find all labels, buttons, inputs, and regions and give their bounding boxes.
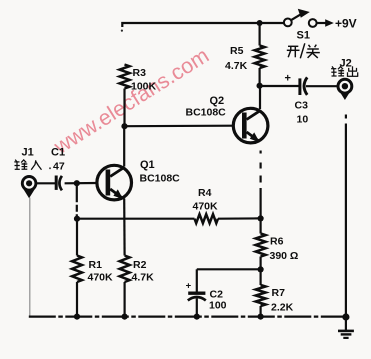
transistor Q1: [97, 165, 132, 200]
wire R7 bottom lead: [260, 306, 262, 317]
svg-text:100: 100: [209, 300, 227, 312]
node R5/C3/Q2 junction: [257, 83, 263, 89]
wire R5 top lead: [259, 23, 261, 46]
wire R6 top lead: [260, 218, 262, 233]
svg-text:Q2: Q2: [210, 95, 225, 107]
wire C1 to Q1 base: [65, 182, 97, 185]
svg-text:+: +: [186, 281, 192, 292]
wire C3 right: [306, 85, 338, 87]
svg-text:100K: 100K: [131, 81, 157, 93]
capacitor C3: [300, 77, 307, 95]
node R6/R7/C2 junction: [258, 266, 264, 272]
resistor R7: [256, 285, 266, 306]
svg-text:470K: 470K: [88, 272, 114, 284]
svg-text:S1: S1: [297, 30, 310, 42]
resistor R3: [120, 65, 130, 89]
wire R7 top lead: [260, 269, 262, 285]
ground: [338, 317, 354, 338]
resistor R1: [72, 256, 82, 283]
svg-text:10: 10: [297, 114, 309, 126]
wire J1 to C1: [36, 182, 55, 184]
wire J1 sleeve gray drop: [29, 198, 31, 317]
svg-text:R2: R2: [133, 259, 147, 271]
node rail/ground: [342, 313, 349, 320]
label J2 shuchu: [331, 66, 358, 76]
svg-text:4.7K: 4.7K: [225, 60, 248, 72]
svg-text:390 Ω: 390 Ω: [270, 250, 299, 262]
svg-text:C3: C3: [295, 100, 309, 112]
watermark www.elecfans.com: [49, 43, 213, 159]
wire Q2 collector from node: [259, 86, 261, 109]
wire Q1 collector: [123, 126, 125, 166]
wire R5 bottom lead: [259, 68, 261, 86]
node rail/R5 junction: [257, 20, 263, 26]
svg-text:470K: 470K: [193, 201, 219, 213]
connector J2: [337, 79, 352, 100]
connector J1: [22, 177, 36, 199]
node R4/R6/Q2-emitter junction: [258, 215, 264, 221]
svg-text:R4: R4: [198, 187, 212, 199]
wire Q2 emitter dashes: [260, 151, 262, 219]
svg-text:R1: R1: [89, 259, 103, 271]
resistor R6: [256, 234, 266, 257]
svg-text:www.elecfans.com: www.elecfans.com: [49, 43, 213, 159]
label J1 shuru: [14, 160, 41, 170]
wire R2 bottom lead: [123, 282, 125, 317]
svg-text:R5: R5: [230, 45, 244, 57]
svg-text:47: 47: [53, 161, 65, 173]
wire R3 bottom lead: [123, 89, 125, 127]
transistor Q2: [233, 108, 268, 143]
resistor R4: [195, 214, 219, 223]
wire J2 to ground rail: [345, 124, 347, 317]
stray scan dot: [121, 30, 123, 32]
svg-text:BC108C: BC108C: [186, 107, 227, 119]
svg-text:Q1: Q1: [140, 159, 155, 171]
wire top supply rail: [122, 23, 283, 27]
switch S1: [284, 9, 334, 27]
wire base interconnect to Q2: [125, 125, 234, 128]
svg-text:+9V: +9V: [335, 17, 357, 31]
wire R4 left segment: [77, 218, 195, 220]
node rail/R7: [258, 314, 264, 320]
node rail/R1: [74, 314, 80, 320]
svg-text:C1: C1: [51, 147, 65, 159]
wire C2 bottom lead: [196, 299, 198, 317]
wire R1 top lead: [76, 219, 78, 256]
resistor R5: [255, 46, 265, 69]
svg-text:4.7K: 4.7K: [132, 272, 155, 284]
node C1/Q1-base junction: [74, 180, 80, 186]
wire R4 right segment: [218, 217, 261, 220]
node base/R1/R4 junction: [74, 216, 80, 222]
node rail/C2: [194, 314, 200, 320]
svg-text:2.2K: 2.2K: [271, 302, 294, 314]
svg-text:R7: R7: [272, 287, 286, 299]
capacitor C2: [188, 293, 206, 300]
svg-text:R6: R6: [270, 236, 284, 248]
wire R6 bottom lead: [260, 257, 262, 270]
wire Q1 emitter down: [123, 199, 126, 256]
wire ground rail: [29, 316, 346, 318]
svg-text:J1: J1: [22, 147, 34, 159]
svg-text:BC108C: BC108C: [140, 173, 181, 185]
wire C3 left: [260, 85, 299, 87]
svg-text:R3: R3: [133, 67, 147, 79]
node R3/Q1/Q2-base junction: [121, 123, 127, 129]
wire R1 bottom lead: [76, 282, 78, 317]
wire C2 top lead: [196, 269, 198, 292]
capacitor C1: [56, 176, 62, 191]
resistor R2: [120, 256, 130, 283]
wire C2 horizontal: [197, 268, 261, 270]
node rail/R2: [122, 314, 128, 320]
label S1 kai/guan: [287, 43, 320, 58]
wire base node down: [76, 183, 78, 219]
wire J2 down dashes: [345, 115, 347, 119]
svg-text:+: +: [285, 73, 291, 85]
